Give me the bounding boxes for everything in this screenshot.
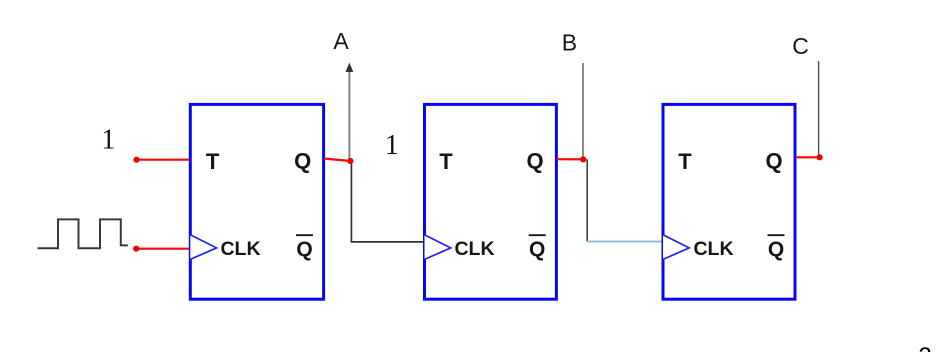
node C dot [817,154,823,160]
svg-text:T: T [439,149,453,174]
svg-text:Q: Q [768,238,784,261]
wire node A to U2 CLK [351,161,424,242]
wire U3 Q to node C [796,156,820,158]
node A dot [347,158,353,164]
svg-text:Q: Q [765,149,782,174]
svg-text:T: T [206,149,220,174]
clock waveform [38,219,128,248]
svg-text:Q: Q [296,238,312,261]
svg-text:CLK: CLK [693,238,733,260]
wire U2 Q to node B [557,158,583,160]
svg-text:CLK: CLK [220,238,260,260]
wire U1 Q to node A [324,159,350,162]
wire clock to U1 CLK [136,248,191,250]
wire node B down [586,159,588,241]
svg-text:Q: Q [526,149,543,174]
U1 CLK edge triangle [190,235,216,260]
net C riser [818,61,820,157]
svg-text:Q: Q [294,149,311,174]
node CLK1 junction dot [133,246,139,252]
net A riser [348,71,350,162]
node T1 junction dot [133,157,139,163]
wire T input to U1 [137,159,190,161]
svg-text:2: 2 [918,343,931,352]
flip-flop U2 body [425,104,557,299]
svg-text:T: T [678,149,692,174]
svg-text:1: 1 [385,130,399,161]
svg-text:C: C [792,33,809,59]
net B riser [582,63,584,159]
svg-text:B: B [562,30,577,56]
flip-flop U1 body [190,104,323,299]
svg-text:A: A [333,28,349,54]
svg-text:CLK: CLK [454,238,494,260]
flip-flop U3 body [663,104,795,299]
U2 CLK edge triangle [425,235,451,260]
svg-text:1: 1 [101,125,115,156]
wire into U3 CLK [587,241,664,243]
svg-text:Q: Q [529,238,545,261]
node B dot [580,156,586,162]
net A arrowhead [346,63,354,73]
U3 CLK edge triangle [663,235,689,260]
